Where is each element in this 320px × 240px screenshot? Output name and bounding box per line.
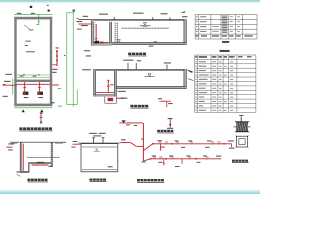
table1 dense spec block bbox=[222, 16, 227, 17]
section tank: step wall bbox=[28, 164, 29, 172]
green tick right below plan bbox=[58, 105, 62, 108]
title: pump room plan bbox=[19, 127, 22, 130]
label above table2 bbox=[220, 50, 230, 52]
upper branch end fittings bbox=[228, 140, 234, 141]
section 2-2: main floor bbox=[114, 86, 186, 88]
pump unit no.2 bbox=[37, 92, 43, 95]
sleeve detail hatch block bbox=[236, 122, 248, 132]
sump pit below compartment bbox=[104, 97, 106, 104]
dimension text 2400 bbox=[31, 13, 35, 14]
pump no.2 riser bbox=[38, 82, 40, 92]
water level symbol bbox=[143, 23, 146, 26]
lower branch hanging valves bbox=[163, 159, 165, 166]
green connector near tank top bbox=[37, 15, 39, 25]
dimension text 3600 bbox=[17, 13, 22, 14]
shaft floor bbox=[91, 44, 111, 46]
floor tick mark bbox=[154, 41, 157, 42]
section 1-1: left wall bbox=[91, 20, 93, 46]
vent tick 2 bbox=[152, 17, 154, 19]
table2 body texts bbox=[195, 57, 196, 58]
title: section 1-1 bbox=[128, 53, 131, 55]
drop pipe in compartment (red) bbox=[107, 80, 109, 93]
note arrow top right bbox=[181, 11, 186, 13]
interior label 消防水池 bbox=[25, 41, 30, 42]
small red valve right of shaft bbox=[118, 41, 120, 42]
suction pipe (red vertical) bbox=[22, 144, 24, 171]
title: feed water system bbox=[157, 130, 160, 132]
flange detail: double square bbox=[236, 136, 247, 147]
title: tank room system bbox=[90, 179, 93, 181]
table2 header row bbox=[195, 56, 197, 57]
labels above section 2 bbox=[123, 60, 133, 61]
table1 header row bbox=[196, 35, 199, 36]
left green dim line bbox=[12, 79, 14, 95]
section 1-1: floor slab bbox=[94, 42, 187, 44]
extra left label bbox=[77, 29, 82, 30]
labels left of section 2 bbox=[82, 69, 91, 70]
inlet pipe (black) from left bbox=[79, 18, 91, 20]
right dimension line 2 bbox=[72, 9, 74, 106]
small drain detail right below section 2 bbox=[159, 100, 171, 102]
left outside labels bbox=[8, 143, 14, 144]
tank lid line bbox=[78, 142, 120, 144]
title: sleeve detail bbox=[232, 160, 235, 162]
leader arrow to table2 bbox=[186, 69, 193, 72]
left pipe labels w/ leaders bbox=[5, 74, 11, 75]
dimension connector bottom bbox=[67, 104, 77, 106]
bottom horizontal pipe (red) bbox=[96, 91, 114, 93]
tick above standpipe bbox=[56, 47, 59, 48]
section tank: main floor bbox=[28, 162, 52, 164]
section 2-2: compartment bottom bbox=[94, 95, 115, 97]
axis label 4 bbox=[73, 10, 75, 12]
marks bottom right of section bbox=[48, 166, 52, 167]
incoming main from left (red) bbox=[3, 84, 17, 86]
pipe tank to riser bbox=[120, 142, 130, 144]
left side valve cluster bbox=[72, 143, 81, 145]
foot valve cluster in shaft bbox=[95, 38, 97, 39]
section 2-2: compartment right wall bbox=[114, 71, 116, 97]
material table (right) bbox=[195, 54, 256, 56]
right dimension line 3 (short) bbox=[76, 90, 78, 105]
feed pipe run (top of schematic) bbox=[119, 122, 143, 124]
label below floor right bbox=[149, 46, 154, 47]
bottom teal band bbox=[0, 189, 260, 194]
section tank: right wall (hatched) bbox=[51, 142, 53, 167]
shared green dimension line (far left of sections) bbox=[72, 9, 74, 106]
water level symbol 2 bbox=[148, 74, 151, 77]
labels right of compartment bbox=[118, 91, 126, 92]
lid vent risers bbox=[93, 138, 95, 143]
section tank: top edge bbox=[20, 141, 53, 143]
right dimension line 1 bbox=[66, 12, 68, 104]
float valve detail bbox=[169, 118, 171, 127]
dim texts on pump room dims bbox=[20, 76, 24, 77]
water level mark in tank bbox=[96, 149, 98, 151]
top teal band bbox=[0, 0, 260, 3]
lower branch labels bbox=[152, 155, 156, 156]
lower branch end bbox=[216, 156, 221, 157]
dimension line below plan bbox=[14, 107, 52, 109]
riser foot mark bbox=[142, 161, 146, 162]
pump unit no.1 bbox=[23, 92, 29, 95]
vent tick 1 bbox=[113, 17, 115, 20]
valve on riser 1 bbox=[24, 87, 26, 89]
section 2-2: right wall bbox=[184, 69, 187, 88]
fire water tank plan: bottom wall bbox=[14, 104, 52, 107]
ground line left bbox=[10, 141, 19, 143]
section 2-2: top slab bbox=[94, 68, 187, 70]
ladder in tank bbox=[114, 22, 116, 42]
lower branch main bbox=[151, 158, 222, 160]
fire water tank plan: left wall bbox=[14, 17, 16, 106]
title: drain system bbox=[137, 179, 140, 181]
pipe label DN100 bbox=[52, 69, 57, 70]
inlet pipe label bbox=[83, 16, 88, 17]
pump tag 2 bbox=[38, 97, 43, 98]
small green mark right of tank bbox=[58, 87, 61, 90]
green dim lines inside pump room bbox=[17, 74, 50, 76]
red horizontal pipe in section bbox=[32, 164, 49, 166]
suction header pipe (red) bbox=[17, 83, 51, 85]
dimension line above tank bbox=[14, 13, 52, 15]
section 2-2: left wall bbox=[94, 69, 96, 96]
pipe label DN100 row2 bbox=[52, 72, 56, 73]
overflow standpipe (red, outside right wall) bbox=[56, 50, 58, 66]
corner ticks on flange square bbox=[235, 135, 237, 137]
left wall hatch bbox=[94, 21, 97, 24]
red drop pipe in shaft bbox=[95, 24, 97, 42]
upper branch main bbox=[153, 143, 232, 145]
tick labels above pipe bbox=[37, 162, 45, 163]
black mark below right wall bbox=[51, 102, 54, 103]
tank inner bottom line bbox=[82, 169, 117, 171]
dimension tick top bbox=[67, 12, 73, 14]
dim tick B bbox=[40, 109, 43, 112]
axis label V bbox=[30, 6, 32, 8]
schematic main riser bbox=[142, 123, 144, 161]
equipment table (top right) bbox=[195, 14, 257, 16]
upper branch labels bbox=[157, 140, 161, 141]
dimension text on right chain bbox=[64, 55, 65, 56]
interior label 4x4 bbox=[26, 51, 35, 52]
title: tank section bbox=[28, 179, 31, 181]
lower branch diagonal bbox=[143, 159, 150, 161]
water tank section (bottom centre) bbox=[81, 144, 118, 172]
tank labels above bbox=[89, 133, 97, 134]
outgoing pipe to right with valve bbox=[52, 84, 59, 86]
section 1-1: top slab bbox=[91, 19, 186, 21]
title: section 2-2 bbox=[130, 105, 133, 107]
section tank: pit floor bbox=[20, 171, 30, 173]
valve on drop pipe bbox=[107, 85, 110, 87]
vent tick 3 bbox=[169, 17, 171, 19]
section tank: left wall bbox=[20, 142, 22, 173]
section 1-1: right wall bbox=[184, 20, 187, 45]
note text inside tank bbox=[122, 27, 170, 30]
pump no.1 riser bbox=[24, 82, 26, 92]
axis label 2 bbox=[48, 10, 50, 12]
upper branch diagonal bbox=[143, 144, 152, 151]
note text inside section bbox=[27, 156, 60, 159]
sump pump (red) bbox=[108, 98, 114, 101]
section 1-1: shaft inner wall bbox=[110, 22, 112, 43]
table1 cell texts bbox=[196, 16, 198, 17]
marks in pit bbox=[16, 171, 19, 172]
label below table1 bbox=[222, 41, 229, 43]
valve on riser 2 bbox=[38, 87, 40, 89]
fire water tank plan: right wall bbox=[50, 17, 52, 106]
inlet pipe (red) from left bbox=[78, 23, 92, 25]
pump tag 1 bbox=[24, 97, 29, 98]
interior label text row2 bbox=[25, 45, 28, 46]
mark inside tank bottom right bbox=[108, 166, 113, 167]
drain stack below plan bbox=[40, 112, 42, 124]
pipe stub above sleeve detail bbox=[239, 115, 243, 116]
ground line right bbox=[53, 141, 66, 143]
discharge pipe from pit (red) bbox=[116, 97, 124, 99]
interior leader line bbox=[24, 25, 29, 29]
fire water tank plan: middle wall bbox=[14, 80, 52, 82]
standpipe connection into wall bbox=[52, 64, 57, 66]
small red marks on dim bbox=[23, 74, 25, 75]
labels above tank bbox=[99, 14, 108, 15]
fire water tank plan: top wall bbox=[14, 17, 52, 20]
dim tick A bbox=[22, 109, 25, 112]
